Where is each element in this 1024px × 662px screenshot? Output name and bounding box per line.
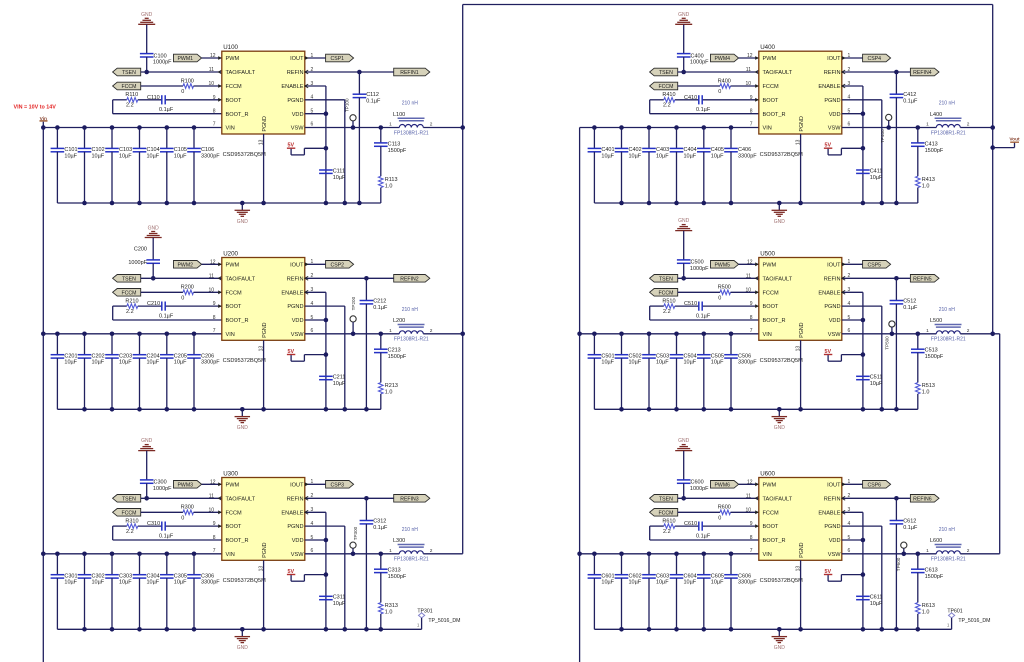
svg-text:10µF: 10µF (629, 580, 642, 586)
capacitor C404 10uF (670, 128, 697, 204)
svg-text:BOOT_R: BOOT_R (763, 112, 786, 118)
wire VDD pin 5 (842, 113, 863, 115)
svg-text:PWM1: PWM1 (177, 56, 193, 62)
pin 12 (747, 479, 759, 486)
pin 2 (842, 273, 851, 280)
capacitor C201 10uF (51, 334, 78, 410)
svg-text:3300pF: 3300pF (201, 360, 220, 366)
junction C300 / TAO-FAULT (144, 496, 149, 501)
svg-text:12: 12 (747, 53, 753, 59)
svg-text:10µF: 10µF (870, 381, 883, 387)
svg-text:TP200: TP200 (351, 296, 356, 310)
pin 11 (746, 67, 759, 74)
svg-text:U500: U500 (760, 250, 775, 257)
svg-text:TP500: TP500 (885, 336, 890, 350)
svg-text:0: 0 (718, 516, 721, 522)
svg-text:4: 4 (311, 301, 314, 307)
svg-text:7: 7 (213, 122, 216, 128)
ground GND (top, block 5) (675, 218, 692, 260)
svg-text:1.0: 1.0 (385, 183, 393, 189)
wire BOOT loop (650, 526, 759, 540)
junction right feed taps (577, 332, 582, 557)
svg-text:210 nH: 210 nH (939, 101, 956, 107)
svg-text:6: 6 (311, 122, 314, 128)
svg-text:ENABLE: ENABLE (818, 290, 840, 296)
svg-text:GND: GND (678, 438, 690, 444)
svg-text:1: 1 (848, 479, 851, 485)
op-amp U400 CSD95372BQ5M power stage (759, 44, 842, 158)
svg-text:2: 2 (430, 328, 433, 334)
svg-text:3: 3 (311, 507, 314, 513)
svg-text:R210: R210 (125, 298, 138, 304)
svg-text:2: 2 (311, 273, 314, 279)
svg-text:C404: C404 (684, 147, 697, 153)
svg-text:C612: C612 (903, 518, 916, 524)
pin 10 (745, 507, 758, 514)
svg-text:1.0: 1.0 (922, 390, 930, 396)
svg-text:C603: C603 (656, 573, 669, 579)
svg-text:C411: C411 (870, 168, 883, 174)
svg-text:L400: L400 (930, 112, 942, 118)
wire BOOT loop (113, 100, 222, 114)
svg-text:IOUT: IOUT (290, 262, 304, 268)
svg-text:6: 6 (311, 548, 314, 554)
svg-text:10µF: 10µF (92, 153, 105, 159)
svg-text:C100: C100 (154, 53, 167, 59)
svg-text:REFIN: REFIN (824, 276, 841, 282)
wire ENABLE tie (305, 86, 326, 203)
svg-text:C413: C413 (925, 141, 938, 147)
inductor L500 210nH FP1308R1-R21 (926, 307, 970, 343)
svg-text:2.2: 2.2 (126, 529, 134, 535)
svg-text:PWM3: PWM3 (177, 482, 193, 488)
wire PWM5 to pin 12 (739, 263, 759, 265)
wire BOOT loop (113, 306, 222, 320)
junction GND bus dots (619, 201, 899, 206)
port PWM5 (711, 261, 739, 269)
capacitor C211 10uF (319, 375, 346, 388)
wire C600 to TSEN net (683, 483, 685, 498)
pin 9 (750, 301, 759, 308)
ground GND (top, block 3) (138, 438, 155, 480)
svg-text:VDD: VDD (292, 538, 304, 544)
resistor R600 0 (718, 505, 731, 522)
junction VIN bus dots (592, 552, 733, 557)
ground GND (top, block 4) (675, 12, 692, 54)
inductor L600 210nH FP1308R1-R21 (926, 527, 970, 563)
svg-text:12: 12 (210, 479, 216, 485)
svg-text:1000pF: 1000pF (690, 60, 709, 66)
wire FCCM to R200 (141, 291, 183, 293)
junction GND bus dots (82, 407, 369, 412)
svg-text:C504: C504 (684, 353, 697, 359)
wire R200 to pin 10 (194, 291, 222, 293)
svg-text:VIN: VIN (226, 552, 235, 558)
pin 3 (842, 287, 851, 294)
capacitor C212 0.1uF (360, 278, 388, 409)
svg-text:2.2: 2.2 (663, 529, 671, 535)
svg-text:R413: R413 (922, 177, 935, 183)
pin 2 (842, 493, 851, 500)
wire 5V to VDD rail (291, 355, 326, 362)
svg-text:CSP5: CSP5 (868, 262, 882, 268)
svg-text:7: 7 (750, 122, 753, 128)
capacitor C411 10uF (856, 168, 883, 181)
port CSP2 (326, 261, 354, 269)
svg-text:2: 2 (430, 122, 433, 128)
port TSEN (block 5) (650, 275, 678, 283)
port TSEN (block 2) (113, 275, 141, 283)
port REFIN5 (910, 275, 939, 283)
pin 1 (842, 53, 851, 60)
svg-text:3: 3 (311, 81, 314, 87)
test point TP500 (885, 321, 896, 350)
junction 5V / VDD rail (324, 352, 329, 357)
svg-text:BOOT_R: BOOT_R (226, 318, 249, 324)
capacitor C610 0.1uF (684, 521, 711, 539)
svg-text:13: 13 (796, 566, 802, 572)
svg-text:VSW: VSW (291, 552, 304, 558)
inductor L200 210nH FP1308R1-R21 (389, 307, 433, 343)
ground GND (bottom, block 3) (235, 629, 251, 651)
wire VDD pin 5 (305, 319, 326, 321)
wire TSEN to pin 11 (141, 277, 222, 279)
pin 2 (305, 273, 314, 280)
port REFIN3 (394, 495, 430, 503)
svg-text:TAO/FAULT: TAO/FAULT (763, 276, 793, 282)
capacitor C112 0.1uF (353, 72, 381, 203)
capacitor C612 0.1uF (890, 498, 918, 629)
svg-text:REFIN6: REFIN6 (913, 496, 932, 502)
junction snubber / VSW (379, 332, 384, 337)
svg-text:R213: R213 (385, 383, 398, 389)
resistor R413 1.0 (916, 176, 935, 203)
pin 12 (210, 259, 222, 266)
capacitor C505 10uF (697, 334, 724, 410)
svg-text:FCCM: FCCM (226, 290, 242, 296)
port TSEN (block 1) (113, 68, 141, 76)
capacitor C600 1000pF (677, 480, 709, 492)
svg-text:REFIN4: REFIN4 (913, 70, 932, 76)
svg-text:10: 10 (208, 507, 214, 513)
port CSP6 (863, 481, 891, 489)
wire GND bus block 1 (57, 202, 380, 204)
capacitor C206 3300pF (187, 334, 220, 410)
svg-text:BOOT: BOOT (763, 98, 779, 104)
junction REFIN / C612 (894, 496, 899, 501)
svg-text:L300: L300 (393, 538, 405, 544)
svg-text:TAO/FAULT: TAO/FAULT (226, 276, 256, 282)
svg-text:1500pF: 1500pF (925, 354, 944, 360)
pin 3 (305, 287, 314, 294)
svg-text:C602: C602 (629, 573, 642, 579)
svg-text:VDD: VDD (829, 318, 841, 324)
svg-text:R500: R500 (718, 285, 731, 291)
svg-text:C506: C506 (738, 353, 751, 359)
svg-text:10µF: 10µF (333, 381, 346, 387)
op-amp U300 CSD95372BQ5M power stage (222, 470, 305, 584)
wire R100 to pin 10 (194, 85, 222, 87)
svg-text:C103: C103 (119, 147, 132, 153)
svg-text:C600: C600 (691, 480, 704, 486)
svg-text:IOUT: IOUT (290, 482, 304, 488)
svg-text:C505: C505 (711, 353, 724, 359)
capacitor C110 0.1uF (147, 95, 174, 113)
svg-text:BOOT: BOOT (763, 524, 779, 530)
svg-text:3300pF: 3300pF (738, 580, 757, 586)
junction REFIN / C312 (364, 496, 369, 501)
port TSEN (block 4) (650, 68, 678, 76)
wire C500 to TSEN net (683, 263, 685, 278)
svg-text:0.1µF: 0.1µF (159, 314, 174, 320)
svg-text:TAO/FAULT: TAO/FAULT (763, 496, 793, 502)
svg-text:5: 5 (311, 109, 314, 115)
wire VDD pin 5 (305, 113, 326, 115)
svg-text:3: 3 (311, 287, 314, 293)
svg-text:1.0: 1.0 (922, 183, 930, 189)
svg-text:ENABLE: ENABLE (818, 510, 840, 516)
wire GND bus block 5 (594, 408, 917, 410)
test point TP400 (880, 114, 892, 143)
svg-text:0.1µF: 0.1µF (903, 305, 918, 311)
junction 5V / VDD rail (861, 572, 866, 577)
junction REFIN / C512 (894, 276, 899, 281)
wire R300 to pin 10 (194, 511, 222, 513)
svg-text:TSEN: TSEN (122, 70, 136, 76)
pin 11 (209, 67, 222, 74)
svg-text:FCCM: FCCM (763, 290, 779, 296)
junction snubber / VSW (916, 332, 921, 337)
svg-text:R613: R613 (922, 603, 935, 609)
svg-text:GND: GND (148, 226, 160, 232)
capacitor C300 1000pF (140, 480, 172, 492)
svg-text:GND: GND (774, 645, 786, 651)
svg-text:C511: C511 (870, 375, 883, 381)
junction GND bus dots (82, 201, 362, 206)
ground GND (top, block 6) (675, 438, 692, 480)
resistor R110 2.2 (125, 92, 138, 109)
wire VSW pin 6 (842, 333, 937, 335)
svg-text:0: 0 (181, 516, 184, 522)
svg-text:0.1µF: 0.1µF (696, 534, 711, 540)
test point TP200 (350, 296, 356, 333)
svg-text:9: 9 (750, 95, 753, 101)
svg-text:0: 0 (181, 296, 184, 302)
capacitor C512 0.1uF (890, 278, 918, 409)
pin 11 (746, 493, 759, 500)
svg-text:TAO/FAULT: TAO/FAULT (226, 496, 256, 502)
svg-text:9: 9 (750, 521, 753, 527)
svg-text:C104: C104 (147, 147, 160, 153)
resistor R300 0 (181, 505, 194, 522)
svg-text:1: 1 (389, 328, 392, 334)
svg-text:REFIN5: REFIN5 (913, 276, 932, 282)
svg-text:11: 11 (209, 67, 214, 73)
svg-text:5: 5 (848, 535, 851, 541)
svg-text:C302: C302 (92, 573, 105, 579)
wire TSEN to pin 11 (678, 71, 759, 73)
pin 13 PGND wire (796, 560, 802, 629)
wire GND bus block 6 (594, 628, 951, 630)
svg-text:6: 6 (311, 328, 314, 334)
wire L600 to output bus (960, 553, 999, 555)
ground GND (bottom, block 1) (235, 203, 251, 225)
power 5V (824, 143, 832, 149)
capacitor C613 1500pF (911, 554, 944, 603)
svg-text:10µF: 10µF (147, 360, 160, 366)
wire Vin feed bus (left) (42, 128, 44, 662)
svg-text:FCCM: FCCM (658, 84, 673, 90)
svg-text:10µF: 10µF (684, 360, 697, 366)
svg-text:GND: GND (678, 218, 690, 224)
svg-text:10µF: 10µF (147, 153, 160, 159)
wire L500 to output bus (960, 333, 999, 335)
svg-text:TP300: TP300 (353, 526, 358, 540)
svg-text:IOUT: IOUT (827, 482, 841, 488)
svg-text:210 nH: 210 nH (402, 307, 419, 313)
svg-text:10µF: 10µF (174, 360, 187, 366)
svg-text:FP1308R1-R21: FP1308R1-R21 (931, 130, 966, 136)
pin 2 (305, 67, 314, 74)
port PWM6 (711, 481, 739, 489)
wire L200 to output bus (423, 333, 462, 335)
pin 10 (745, 287, 758, 294)
junction REFIN / C412 (894, 70, 899, 75)
wire VSW pin 6 (305, 553, 400, 555)
capacitor C504 10uF (670, 334, 697, 410)
capacitor C303 10uF (105, 554, 132, 630)
svg-text:C305: C305 (174, 573, 187, 579)
ground GND (bottom, block 2) (235, 409, 251, 431)
svg-text:C300: C300 (154, 480, 167, 486)
junction 5V / VDD rail (861, 146, 866, 151)
svg-text:C306: C306 (201, 573, 214, 579)
svg-text:REFIN2: REFIN2 (400, 276, 419, 282)
svg-text:VIN: VIN (763, 332, 772, 338)
svg-text:C610: C610 (684, 521, 697, 527)
svg-text:10µF: 10µF (711, 153, 724, 159)
svg-text:10µF: 10µF (656, 360, 669, 366)
svg-text:210 nH: 210 nH (402, 101, 419, 107)
wire PGND pin 4 (305, 306, 345, 409)
svg-text:1.0: 1.0 (922, 610, 930, 616)
wire GND bus block 3 (57, 628, 421, 630)
port Vout (993, 137, 1020, 148)
svg-text:C606: C606 (738, 573, 751, 579)
svg-text:10µF: 10µF (870, 601, 883, 607)
svg-text:1500pF: 1500pF (388, 354, 407, 360)
capacitor C403 10uF (642, 128, 669, 204)
svg-text:U200: U200 (223, 250, 238, 257)
junction TP400 / VSW (886, 125, 891, 130)
wire R400 to pin 10 (731, 85, 759, 87)
capacitor C601 10uF (588, 554, 615, 630)
port FCCM (block 1) (113, 82, 141, 90)
port TSEN (block 6) (650, 495, 678, 503)
junction VDD / enable tie (861, 538, 866, 543)
pin 11 (209, 273, 222, 280)
svg-text:11: 11 (746, 67, 751, 73)
svg-text:FP1308R1-R21: FP1308R1-R21 (931, 557, 966, 563)
svg-text:10: 10 (208, 287, 214, 293)
wire 5V to VDD rail (828, 575, 863, 582)
svg-text:0.1µF: 0.1µF (373, 525, 388, 531)
svg-text:GND: GND (774, 425, 786, 431)
wire VIN bus block 3 (43, 553, 222, 555)
svg-text:GND: GND (141, 12, 153, 18)
port PWM4 (711, 54, 739, 62)
wire VIN bus block 5 (580, 333, 759, 335)
svg-text:3300pF: 3300pF (201, 153, 220, 159)
svg-text:ENABLE: ENABLE (281, 290, 303, 296)
capacitor C306 3300pF (187, 554, 220, 630)
svg-text:1: 1 (848, 259, 851, 265)
svg-text:FCCM: FCCM (226, 84, 242, 90)
svg-text:3300pF: 3300pF (738, 360, 757, 366)
svg-text:C202: C202 (92, 353, 105, 359)
svg-text:4: 4 (848, 521, 851, 527)
port CSP4 (863, 54, 891, 62)
pin 1 (305, 53, 314, 60)
svg-text:12: 12 (210, 259, 216, 265)
pin 13 PGND wire (796, 134, 802, 203)
svg-text:PGND: PGND (824, 304, 840, 310)
svg-text:REFIN: REFIN (824, 70, 841, 76)
svg-text:8: 8 (213, 109, 216, 115)
svg-text:C501: C501 (601, 353, 614, 359)
junction C500 / TAO-FAULT (681, 276, 686, 281)
capacitor C113 1500pF (374, 128, 407, 177)
pin 11 (746, 273, 759, 280)
svg-text:10µF: 10µF (711, 360, 724, 366)
capacitor C100 1000pF (140, 53, 172, 65)
port TSEN (block 3) (113, 495, 141, 503)
pin 13 PGND wire (259, 134, 265, 203)
svg-text:R610: R610 (662, 518, 675, 524)
capacitor C502 10uF (615, 334, 642, 410)
svg-text:PWM5: PWM5 (714, 262, 730, 268)
svg-text:210 nH: 210 nH (939, 307, 956, 313)
junction TP500 / VSW (890, 332, 895, 337)
svg-text:C405: C405 (711, 147, 724, 153)
capacitor C210 0.1uF (147, 301, 174, 319)
svg-text:IOUT: IOUT (827, 262, 841, 268)
svg-text:L500: L500 (930, 318, 942, 324)
svg-text:R513: R513 (922, 383, 935, 389)
svg-text:13: 13 (796, 139, 802, 145)
junction VDD / enable tie (324, 318, 329, 323)
svg-text:GND: GND (774, 219, 786, 225)
pin 9 (750, 521, 759, 528)
svg-text:2: 2 (848, 273, 851, 279)
capacitor C205 10uF (160, 334, 187, 410)
svg-text:13: 13 (796, 346, 802, 352)
port REFIN1 (394, 68, 430, 76)
svg-text:3: 3 (848, 81, 851, 87)
junction VDD / enable tie (324, 111, 329, 116)
svg-text:2: 2 (430, 548, 433, 554)
svg-text:210 nH: 210 nH (939, 527, 956, 533)
wire Vout bus (right half lower) (999, 334, 1001, 554)
capacitor C311 10uF (319, 595, 346, 608)
svg-text:0: 0 (181, 89, 184, 95)
svg-text:0.1µF: 0.1µF (373, 305, 388, 311)
wire REFIN to REFIN3 (305, 497, 394, 499)
pin 9 (750, 95, 759, 102)
svg-text:PWM: PWM (226, 262, 240, 268)
junction snubber / VSW (916, 125, 921, 130)
junction snubber / VSW (379, 125, 384, 130)
